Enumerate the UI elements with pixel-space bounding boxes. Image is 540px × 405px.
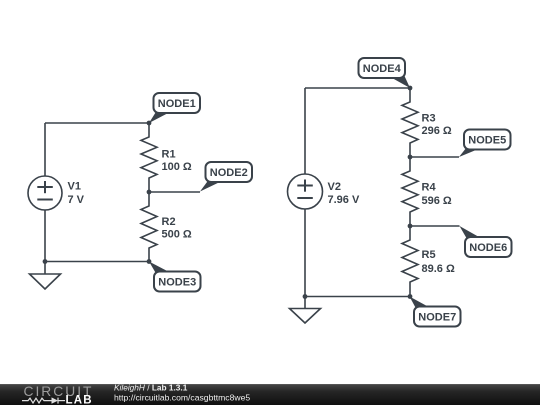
- svg-text:R5: R5: [422, 249, 436, 261]
- svg-text:7.96 V: 7.96 V: [328, 194, 360, 206]
- svg-text:7 V: 7 V: [68, 194, 85, 206]
- svg-text:NODE6: NODE6: [469, 242, 507, 254]
- svg-text:R2: R2: [162, 216, 176, 228]
- svg-text:R3: R3: [422, 113, 436, 125]
- svg-text:R1: R1: [162, 149, 176, 161]
- svg-text:100 Ω: 100 Ω: [162, 161, 192, 173]
- svg-text:NODE2: NODE2: [210, 167, 248, 179]
- svg-text:296 Ω: 296 Ω: [422, 125, 452, 137]
- svg-text:NODE4: NODE4: [363, 63, 402, 75]
- svg-text:V2: V2: [328, 181, 341, 193]
- svg-text:V1: V1: [68, 181, 81, 193]
- svg-text:http://circuitlab.com/casgbttm: http://circuitlab.com/casgbttmc8we5: [114, 393, 250, 403]
- svg-text:NODE5: NODE5: [468, 135, 506, 147]
- svg-text:KileighH / Lab 1.3.1: KileighH / Lab 1.3.1: [114, 382, 188, 392]
- svg-text:NODE1: NODE1: [158, 98, 196, 110]
- svg-text:89.6 Ω: 89.6 Ω: [422, 263, 455, 275]
- svg-text:LAB: LAB: [66, 395, 93, 405]
- svg-text:R4: R4: [422, 182, 437, 194]
- svg-text:500 Ω: 500 Ω: [162, 229, 192, 241]
- svg-text:NODE3: NODE3: [158, 277, 196, 289]
- svg-text:NODE7: NODE7: [418, 312, 456, 324]
- svg-text:596 Ω: 596 Ω: [422, 195, 452, 207]
